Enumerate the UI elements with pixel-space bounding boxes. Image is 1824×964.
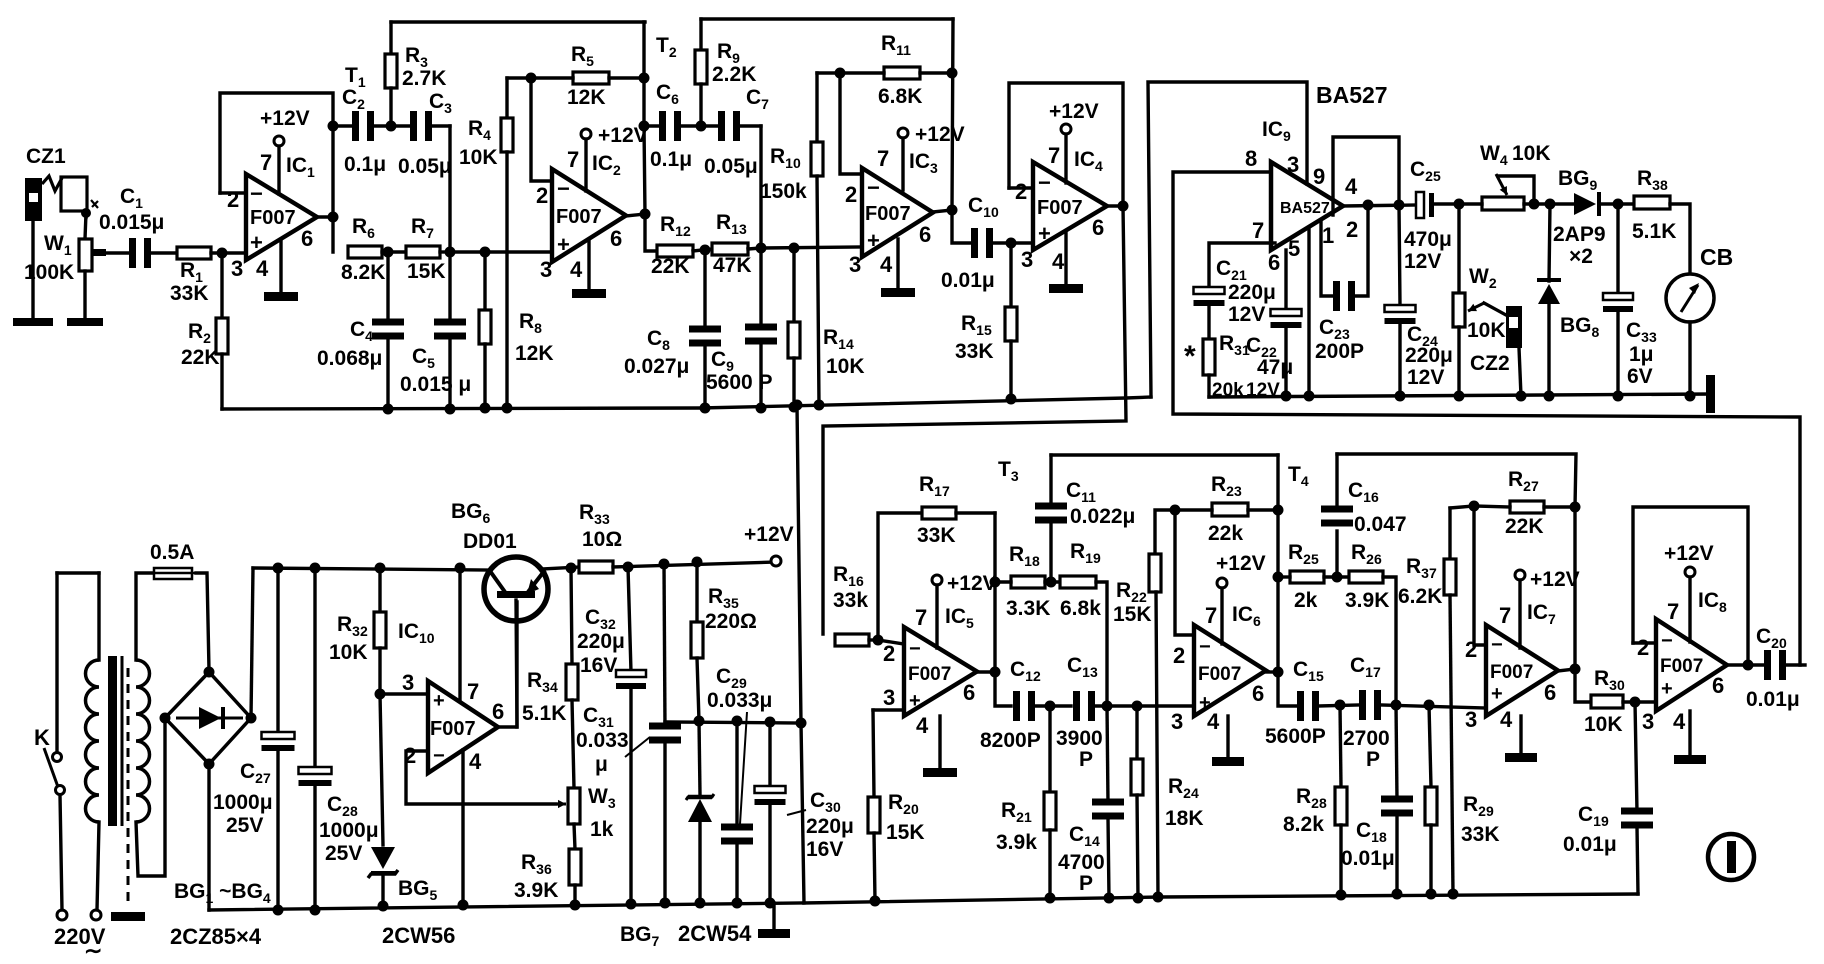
C30 pointer line: [787, 810, 806, 815]
wire R20 to rail: [874, 833, 875, 901]
resistor R23 body: [1212, 503, 1248, 516]
svg-text:2AP9: 2AP9: [1553, 223, 1606, 246]
svg-text:7: 7: [567, 147, 579, 172]
svg-text:+12V: +12V: [744, 523, 794, 546]
node meter rail: [1685, 391, 1696, 402]
svg-text:P: P: [1079, 872, 1093, 895]
svg-text:K: K: [34, 725, 50, 750]
wire node to W2: [1457, 204, 1460, 293]
node C28 top: [310, 563, 321, 574]
wire R25 to node: [1324, 575, 1349, 578]
node C9 rail: [756, 403, 767, 414]
svg-text:2: 2: [1465, 637, 1477, 662]
capacitor C23: [1333, 281, 1355, 311]
node R29 top: [1424, 700, 1435, 711]
svg-text:F007: F007: [908, 664, 951, 685]
svg-text:+: +: [867, 228, 880, 253]
svg-text:6: 6: [610, 226, 622, 251]
svg-text:F007: F007: [1198, 664, 1241, 685]
wire R8 top: [483, 252, 486, 310]
svg-text:200P: 200P: [1315, 340, 1364, 363]
svg-text:3: 3: [883, 685, 895, 710]
capacitor C15: [1297, 691, 1319, 721]
svg-text:CZ1: CZ1: [26, 145, 66, 168]
IC4 output wire: [1107, 204, 1123, 207]
transformer primary coil: [86, 660, 100, 822]
svg-text:12K: 12K: [515, 342, 554, 365]
ground bar under CZ1: [13, 318, 53, 326]
svg-text:0.027μ: 0.027μ: [624, 355, 689, 378]
svg-text:25V: 25V: [226, 814, 263, 837]
capacitor C10: [971, 228, 993, 258]
svg-text:4: 4: [256, 256, 269, 281]
wire node to C2: [333, 124, 352, 127]
svg-text:15K: 15K: [886, 821, 925, 844]
power rail after R33: [613, 562, 776, 567]
node R4 rail: [502, 403, 513, 414]
svg-text:+: +: [557, 232, 570, 257]
switch K top contact: [53, 753, 62, 762]
svg-text:12V: 12V: [1228, 303, 1265, 326]
capacitor C6: [659, 111, 681, 141]
node C31 top: [659, 559, 670, 570]
node R38 left: [1613, 199, 1624, 210]
svg-text:6: 6: [1544, 680, 1556, 705]
resistor R34 body: [566, 664, 578, 700]
wire to primary top: [97, 573, 100, 660]
svg-text:0.01μ: 0.01μ: [1563, 833, 1617, 856]
IC10 pin7 wire: [458, 568, 461, 700]
svg-text:6: 6: [492, 699, 504, 724]
wire BG8 to rail: [1547, 304, 1550, 396]
bridge top vertex: [204, 667, 215, 678]
node BG5 rail: [378, 901, 389, 912]
svg-text:P: P: [1366, 748, 1380, 771]
node C33 rail: [1613, 391, 1624, 402]
svg-text:−: −: [909, 638, 921, 660]
svg-text:6: 6: [1252, 681, 1264, 706]
C29 pointer line: [740, 712, 747, 824]
svg-text:1000μ: 1000μ: [319, 819, 379, 842]
node R14 top: [789, 243, 800, 254]
svg-text:8.2K: 8.2K: [341, 261, 385, 284]
power section node row: [665, 722, 801, 723]
svg-text:−: −: [1661, 630, 1673, 652]
wire R8 to rail: [483, 344, 486, 408]
IC5 output wire: [977, 670, 995, 673]
wire R14 to rail: [792, 358, 795, 407]
wire R34 top: [571, 568, 572, 664]
wire C17 to pin3 row: [1381, 705, 1486, 708]
wire mains left: [55, 573, 58, 752]
svg-text:0.01μ: 0.01μ: [941, 269, 995, 292]
IC8 output wire: [1727, 663, 1748, 666]
potentiometer W2 body: [1453, 293, 1465, 327]
svg-text:10K: 10K: [1584, 713, 1623, 736]
wire C5 to rail: [448, 338, 451, 409]
bottom right ground rail: [804, 894, 1638, 903]
IC3 pin2 wire: [840, 73, 862, 174]
IC1 feedback box: [220, 93, 333, 193]
svg-text:8: 8: [1245, 146, 1257, 171]
resistor R11 body: [884, 67, 920, 79]
wire W1 wiper to C1: [105, 251, 131, 254]
node R10 rail: [814, 400, 825, 411]
wire C13 to pin3 row: [1095, 704, 1194, 707]
svg-text:3: 3: [540, 257, 552, 282]
node R24 rail: [1133, 893, 1144, 904]
svg-text:6.2K: 6.2K: [1398, 585, 1442, 608]
node R18 branch: [990, 577, 1001, 588]
IC5 output vertical: [995, 513, 1011, 706]
node R28 rail: [1336, 890, 1347, 901]
capacitor C8: [689, 326, 721, 347]
node C8 rail: [700, 403, 711, 414]
resistor R2 body: [216, 318, 228, 354]
capacitor C25: [1416, 192, 1434, 218]
wire C7 down: [759, 126, 762, 248]
svg-text:2.2K: 2.2K: [712, 63, 756, 86]
resistor R38 body: [1634, 196, 1670, 209]
wire C23 to output: [1354, 205, 1368, 296]
zener BG7: [686, 794, 714, 822]
wire BG7 to rail: [698, 820, 701, 903]
svg-text:0.047: 0.047: [1354, 513, 1407, 536]
node R25 left: [1273, 572, 1284, 583]
resistor R32 body: [374, 612, 386, 648]
resistor R1 body: [177, 247, 211, 259]
wire R10 node to R11: [817, 71, 840, 74]
wire R38 to meter: [1670, 204, 1690, 274]
wire meter to rail: [1688, 322, 1691, 396]
svg-text:4700: 4700: [1058, 851, 1105, 874]
op-amp IC10 body: [428, 681, 498, 773]
IC8 pin7 wire: [1688, 577, 1691, 642]
T2 top wire: [701, 17, 953, 20]
svg-text:F007: F007: [250, 207, 296, 229]
wire BG9 to node: [1601, 202, 1634, 205]
wire R3 to node: [389, 88, 392, 126]
wire R7 right: [440, 250, 450, 253]
wire node to R2: [220, 253, 223, 318]
svg-text:12V: 12V: [1404, 250, 1441, 273]
wire R19 right: [1096, 582, 1107, 706]
wire node to C29: [735, 721, 738, 828]
transformer secondary coil: [136, 660, 150, 822]
IC6 +12V terminal: [1217, 578, 1227, 588]
capacitor C20: [1764, 650, 1786, 680]
wire C31 bottom: [663, 742, 666, 903]
W2 wiper arrow: [1468, 303, 1484, 311]
wire C22 to rail: [1284, 326, 1287, 396]
svg-text:10K: 10K: [1512, 142, 1551, 165]
wire node to R21: [1048, 706, 1051, 792]
IC1 pin2 wire: [220, 191, 246, 194]
node C32 top: [623, 562, 634, 573]
node C5 rail: [445, 404, 456, 415]
zener BG5: [368, 847, 398, 878]
IC4 pin4 wire: [1064, 232, 1067, 284]
node C30 rail: [765, 898, 776, 909]
IC4 +12V terminal: [1061, 124, 1071, 134]
node C28 rail: [310, 905, 321, 916]
IC5 +12V terminal: [932, 575, 942, 585]
resistor R29 body: [1425, 787, 1437, 825]
wire R10 top: [815, 73, 818, 142]
node W4 right: [1529, 199, 1540, 210]
wire row to IC3 pin3: [761, 247, 862, 248]
bridge left vertex: [160, 713, 171, 724]
svg-text:33K: 33K: [955, 340, 994, 363]
node C10/R15/pin3: [1006, 238, 1017, 249]
svg-text:5.1K: 5.1K: [522, 702, 566, 725]
wire node to IC5 pin2: [878, 640, 904, 644]
svg-text:4: 4: [1500, 707, 1513, 732]
node IC2 output: [640, 209, 651, 220]
node BG7 top: [694, 716, 705, 727]
IC8 ground bar: [1674, 755, 1706, 764]
wire C19 to rail: [1637, 827, 1638, 894]
svg-text:4: 4: [1207, 709, 1220, 734]
wire C16 to top: [1335, 454, 1338, 506]
node R7/C3/C5: [445, 247, 456, 258]
svg-text:18K: 18K: [1165, 807, 1204, 830]
svg-text:1k: 1k: [590, 818, 614, 841]
wire C3 down: [448, 126, 451, 252]
wire C33 to rail: [1616, 310, 1619, 396]
wire R37 node link: [1450, 506, 1474, 508]
svg-text:7: 7: [1252, 218, 1264, 243]
capacitor C24: [1385, 305, 1416, 324]
svg-text:2: 2: [883, 641, 895, 666]
op-amp IC9 body: [1271, 162, 1343, 250]
wire IC3 out to C10: [952, 210, 971, 243]
op-amp IC2 body: [552, 169, 626, 262]
IC7 ground bar: [1505, 753, 1537, 762]
IC9 pin7 wire: [1209, 243, 1275, 287]
bridge rectifier BG1-BG4: [165, 672, 251, 764]
node C30 top: [765, 717, 776, 728]
capacitor C7: [718, 111, 740, 141]
IC2 output wire: [626, 214, 645, 216]
node R11 left/pin2: [835, 68, 846, 79]
resistor R3 body: [385, 54, 397, 88]
IC7 pin7 wire: [1518, 580, 1521, 648]
svg-text:150k: 150k: [760, 180, 807, 203]
wire node to C20: [1748, 663, 1763, 666]
wire node to C19: [1635, 702, 1637, 812]
IC9 pin1 wire: [1321, 222, 1335, 296]
node W4 left: [1454, 199, 1465, 210]
svg-text:33K: 33K: [170, 282, 209, 305]
resistor R13 body: [712, 243, 748, 255]
switch K bottom contact: [56, 786, 65, 795]
svg-text:12V: 12V: [1407, 366, 1444, 389]
wire R4 node to R5: [507, 76, 531, 79]
wire C31 top: [664, 564, 665, 727]
wire R21 to rail: [1048, 830, 1051, 898]
wire R23 right: [1248, 508, 1278, 511]
svg-text:P: P: [1079, 748, 1093, 771]
capacitor C3: [410, 111, 432, 141]
wire row to IC2 pin3: [450, 250, 552, 253]
power rail after BG6: [543, 567, 579, 569]
wire R22 top: [1155, 510, 1175, 554]
resistor R16 body: [835, 634, 869, 646]
resistor R21 body: [1044, 792, 1056, 830]
wire R1 to node: [211, 251, 246, 254]
IC5 pin4 wire: [938, 716, 941, 768]
node ground drop rail top: [792, 400, 803, 411]
svg-text:15K: 15K: [407, 260, 446, 283]
node BG7 rail: [695, 898, 706, 909]
svg-text:0.5A: 0.5A: [150, 541, 194, 564]
node R5 right: [639, 73, 650, 84]
capacitor C30: [755, 786, 786, 805]
wire node to R23: [1175, 508, 1212, 511]
svg-text:2: 2: [1637, 635, 1649, 660]
wire C20 to feedback: [1786, 663, 1805, 666]
wire C29 to rail: [735, 843, 738, 903]
svg-text:+: +: [1038, 221, 1051, 246]
svg-text:5: 5: [1288, 236, 1300, 261]
svg-text:+12V: +12V: [1216, 552, 1266, 575]
node C18 rail: [1392, 889, 1403, 900]
capacitor C28: [299, 767, 332, 786]
wire BG5 to rail: [381, 873, 384, 906]
wire node to W4: [1459, 202, 1482, 205]
IC3 +12V terminal: [898, 128, 908, 138]
potentiometer W4 body: [1482, 197, 1524, 210]
node IC7 output: [1570, 664, 1581, 675]
IC9 pin6 wire: [1284, 250, 1287, 310]
figure mark 1: [1708, 834, 1754, 880]
node R22 rail: [1153, 892, 1164, 903]
wire C28 bottom: [313, 784, 316, 910]
wire node to C4: [386, 252, 389, 323]
wire R25 left: [1278, 575, 1290, 578]
svg-text:16V: 16V: [580, 654, 617, 677]
wire IC4 out to IC5 section: [823, 206, 1126, 634]
wire jack to W1: [85, 213, 86, 239]
svg-text:2CW56: 2CW56: [382, 923, 455, 948]
node C6/C7/R9: [696, 121, 707, 132]
resistor R27 body: [1510, 501, 1544, 513]
wire R34 to W3: [572, 700, 574, 788]
IC7 output wire: [1558, 669, 1575, 671]
svg-text:4: 4: [1345, 174, 1358, 199]
wire C14 to rail: [1108, 818, 1109, 898]
svg-text:+12V: +12V: [1664, 542, 1714, 565]
svg-text:10K: 10K: [329, 641, 368, 664]
node R25/R26/C16: [1332, 572, 1343, 583]
resistor R35 body: [691, 622, 703, 658]
wire R17 to output vertical: [956, 511, 995, 514]
svg-text:∼: ∼: [84, 938, 102, 963]
resistor R28 body: [1335, 787, 1347, 825]
wire R32 to node: [378, 648, 381, 694]
svg-text:220μ: 220μ: [577, 630, 625, 653]
node CZ1 tip: [81, 208, 91, 218]
wire node to C16: [1335, 531, 1338, 577]
node R8 top: [480, 247, 491, 258]
IC2 pin2 wire: [531, 78, 552, 181]
220V terminal right: [91, 910, 101, 920]
wire pin3 to R20: [873, 710, 874, 797]
wire R6 to C4 node: [382, 250, 406, 253]
svg-text:33k: 33k: [833, 589, 868, 612]
IC2 pin7 wire: [584, 139, 587, 191]
svg-text:0.015 μ: 0.015 μ: [400, 373, 471, 396]
+12V terminal power: [771, 556, 781, 566]
op-amp IC5 body: [904, 627, 977, 716]
svg-text:4: 4: [1673, 709, 1686, 734]
svg-text:7: 7: [1205, 603, 1217, 628]
IC9 box from rail: [1148, 82, 1307, 397]
wire C18 to rail: [1395, 815, 1398, 894]
IC3 ground bar: [881, 288, 915, 297]
IC4 feedback box: [1009, 83, 1123, 206]
node R23 right: [1273, 505, 1284, 516]
svg-text:2CW54: 2CW54: [678, 921, 752, 946]
resistor R18 body: [1011, 576, 1045, 588]
wire node to R24: [1135, 706, 1138, 759]
svg-text:1: 1: [1322, 223, 1334, 248]
IC5 ground bar: [923, 768, 957, 777]
wire C11 to top: [1049, 455, 1052, 503]
svg-text:F007: F007: [556, 206, 602, 228]
wire R37 top: [1448, 508, 1451, 559]
capacitor C31: [649, 723, 681, 744]
IC1 pin7 wire: [277, 146, 280, 194]
svg-text:0.015μ: 0.015μ: [99, 211, 164, 234]
svg-text:3.9k: 3.9k: [996, 831, 1037, 854]
svg-text:6: 6: [1712, 673, 1724, 698]
svg-text:3: 3: [1287, 152, 1299, 177]
node R6/R7/C4: [383, 247, 394, 258]
wire C4 to rail: [386, 338, 389, 409]
IC6 pin2 wire: [1175, 510, 1194, 635]
IC10 pin4 wire: [461, 750, 464, 905]
svg-text:×2: ×2: [1569, 245, 1593, 268]
IC6 pin4 wire: [1226, 716, 1229, 757]
wire R32 top: [378, 568, 381, 612]
wire R2 to rail: [220, 354, 223, 409]
capacitor C14: [1092, 799, 1124, 820]
IC9 pin2 box: [1333, 137, 1399, 215]
svg-text:6.8k: 6.8k: [1060, 597, 1101, 620]
IC10 output wire: [498, 602, 517, 727]
IC7 pin2 wire: [1474, 506, 1486, 645]
svg-text:+: +: [250, 230, 263, 255]
wire C2 to node: [374, 124, 391, 127]
wire node to C33: [1616, 204, 1619, 296]
wire C32 top: [628, 567, 631, 672]
wire W2 wiper to CZ2: [1484, 303, 1506, 315]
wire R14 top: [792, 248, 795, 322]
wire bridge plus up: [251, 568, 253, 718]
node R37 rail: [1448, 889, 1459, 900]
capacitor C21: [1194, 287, 1225, 306]
BG6 base wire: [516, 600, 517, 727]
meter section ground rail: [1209, 394, 1712, 397]
wire R22 to rail: [1156, 592, 1158, 897]
resistor R25 body: [1290, 571, 1324, 583]
wire C15 to node: [1319, 705, 1358, 706]
node R23 left/pin2: [1170, 505, 1181, 516]
resistor R19 body: [1060, 576, 1096, 588]
IC4 pin2 wire: [1009, 186, 1033, 189]
